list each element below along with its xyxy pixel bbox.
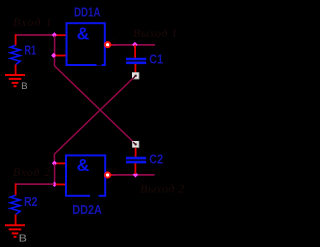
capacitor C2 lead bottom xyxy=(134,163,136,174)
svg-text:Вход 2: Вход 2 xyxy=(13,165,51,179)
wire output 1 xyxy=(112,44,155,46)
wire down to DD2A input junction xyxy=(53,154,55,163)
wire output 2 xyxy=(112,174,155,176)
resistor R1 xyxy=(10,45,20,64)
wire diagonal DD1A input to C2 box xyxy=(54,66,133,142)
capacitor C2 xyxy=(126,158,146,162)
resistor R2 lead top xyxy=(15,183,17,195)
gate DD2A input stub 1 xyxy=(57,162,66,164)
node B junction (DD1A input 2) xyxy=(51,53,56,58)
op-amp gate DD1A body xyxy=(67,23,105,65)
node F junction (output 2 / C2) xyxy=(133,172,138,177)
wire diagonal C1 box to DD2A input xyxy=(54,78,132,154)
gate DD1A input stub 1 xyxy=(57,34,66,36)
resistor R1 lead bottom xyxy=(15,64,17,75)
svg-text:B: B xyxy=(21,81,28,92)
wire R1 top to DD1A input node xyxy=(15,34,54,36)
capacitor C1 lead bottom xyxy=(134,64,136,72)
gate DD2A output bubble xyxy=(104,171,111,178)
node A junction (DD1A input 1) xyxy=(52,32,57,37)
svg-text:Вход 1: Вход 1 xyxy=(13,15,53,29)
ground (R1) xyxy=(5,75,25,86)
svg-text:R1: R1 xyxy=(24,43,36,57)
svg-text:DD1A: DD1A xyxy=(74,6,101,20)
svg-text:Выход 1: Выход 1 xyxy=(133,26,178,40)
wire down from DD1A input to diagonal xyxy=(54,57,56,66)
svg-text:C1: C1 xyxy=(149,52,163,66)
svg-text:C2: C2 xyxy=(149,153,163,167)
capacitor C1 lead top xyxy=(134,45,136,58)
node E junction (DD2A input 2) xyxy=(52,182,57,187)
gate DD2A output stub xyxy=(111,174,116,176)
svg-text:DD2A: DD2A xyxy=(72,203,102,217)
capacitor C2 lead top xyxy=(135,148,137,158)
ground (R2) xyxy=(5,225,25,237)
svg-text:2: 2 xyxy=(113,38,117,45)
resistor R2 lead bottom xyxy=(15,214,17,225)
capacitor C1 xyxy=(126,59,146,63)
svg-text:B: B xyxy=(19,233,27,245)
connector box cross wire to C2 xyxy=(132,141,139,148)
gate DD1A input stub 2 xyxy=(56,55,66,57)
gate DD1A output bubble xyxy=(104,41,111,48)
node C junction (output 1 / C1) xyxy=(132,42,137,47)
op-amp gate DD2A body xyxy=(66,155,105,197)
svg-text:R2: R2 xyxy=(24,195,38,209)
svg-text:Выход 2: Выход 2 xyxy=(140,182,185,196)
wire tying DD1A inputs xyxy=(54,36,56,56)
svg-text:1: 1 xyxy=(56,48,60,55)
wire R2 top to DD2A input node xyxy=(15,183,54,185)
gate DD1A output stub xyxy=(111,44,117,46)
connector box C1 to cross wire xyxy=(132,72,139,79)
resistor R2 xyxy=(10,195,20,214)
svg-text:&: & xyxy=(77,24,90,44)
svg-text:4: 4 xyxy=(113,168,117,175)
resistor R1 lead top xyxy=(15,34,17,45)
gate DD2A input stub 2 xyxy=(56,183,66,185)
wire tying DD2A inputs xyxy=(54,164,56,184)
node D junction (DD2A input 1) xyxy=(52,161,57,166)
svg-text:&: & xyxy=(77,155,90,175)
